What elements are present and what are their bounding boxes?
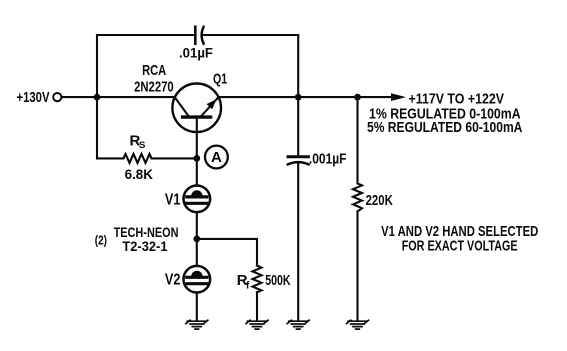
- wire top rail left segment: [97, 34, 194, 36]
- node A junction: [193, 155, 200, 162]
- wire Rf to ground: [256, 292, 258, 321]
- node +130V junction: [94, 94, 101, 101]
- wire main rail Q1 emitter to output arrow: [219, 96, 392, 98]
- wire V1 to V1/V2 junction: [196, 212, 198, 239]
- ground (below 220K): [347, 320, 369, 329]
- ground (below Rf): [246, 320, 268, 329]
- svg-text:220K: 220K: [366, 192, 393, 209]
- neon lamp V2: [184, 266, 211, 293]
- transistor Q1: [172, 84, 221, 159]
- wire 220K to ground: [356, 211, 358, 320]
- wire .001uF to ground: [297, 164, 299, 321]
- capacitor .01uF: [195, 27, 203, 44]
- node V1/V2/Rf junction: [193, 236, 200, 243]
- resistor Rf 500K: [253, 266, 262, 293]
- wire junction down to V2: [196, 239, 198, 266]
- output arrow: [391, 93, 406, 101]
- wire left vertical from top rail down to Rs: [96, 35, 98, 158]
- svg-text:V2: V2: [165, 272, 181, 289]
- svg-text:S: S: [139, 140, 145, 151]
- svg-text:V1: V1: [165, 191, 181, 208]
- wire 220K branch upper: [356, 97, 358, 183]
- svg-text:.01µF: .01µF: [179, 45, 213, 60]
- node A label circle: [205, 146, 228, 169]
- svg-text:2N2270: 2N2270: [134, 79, 174, 96]
- svg-text:FOR EXACT VOLTAGE: FOR EXACT VOLTAGE: [402, 238, 518, 255]
- svg-text:Q1: Q1: [213, 71, 227, 88]
- svg-text:T2-32-1: T2-32-1: [122, 238, 167, 254]
- terminal +130V input: [53, 93, 61, 101]
- wire Q1 base down to V1: [196, 158, 198, 185]
- svg-text:.001µF: .001µF: [309, 152, 347, 168]
- ground (below .001uF): [287, 320, 309, 329]
- node output junction at 220K branch: [354, 94, 361, 101]
- svg-text:(2): (2): [95, 234, 107, 248]
- wire V2 to ground: [196, 293, 198, 321]
- svg-text:A: A: [211, 149, 222, 166]
- wire right vertical from top rail to output rail: [297, 35, 299, 97]
- wire top rail right segment: [204, 34, 298, 36]
- neon lamp V1: [184, 186, 211, 213]
- svg-text:5% REGULATED 60-100mA: 5% REGULATED 60-100mA: [367, 119, 523, 136]
- svg-text:RCA: RCA: [142, 62, 166, 79]
- svg-text:+130V: +130V: [17, 90, 50, 106]
- node output junction at .001uF branch: [295, 94, 302, 101]
- wire junction to Rf branch: [197, 239, 257, 266]
- wire main rail left to Q1 collector: [62, 96, 175, 98]
- resistor 220K: [353, 183, 362, 211]
- capacitor .001uF: [288, 157, 309, 165]
- ground (below V2): [186, 320, 208, 329]
- svg-text:6.8K: 6.8K: [125, 166, 153, 182]
- svg-text:500K: 500K: [265, 273, 291, 289]
- wire .001uF branch upper: [297, 97, 299, 155]
- resistor Rs 6.8K: [97, 154, 197, 163]
